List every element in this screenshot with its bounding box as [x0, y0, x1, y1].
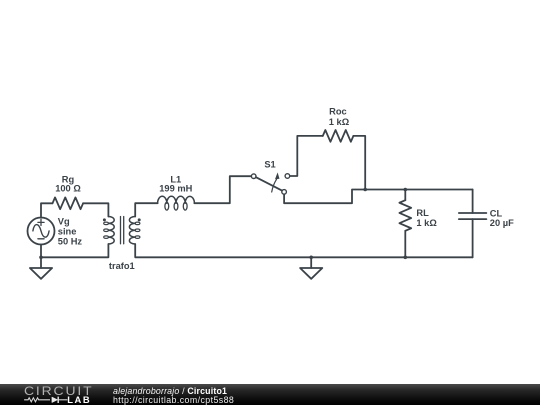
logo mark zigzag diode LAB: [0, 384, 110, 405]
svg-text:sine: sine: [58, 226, 77, 236]
label Vg sine 50 Hz: [58, 216, 83, 246]
wire secondary top to L1: [135, 203, 157, 216]
voltage source Vg: [28, 218, 55, 245]
wire primary bottom rail: [41, 244, 108, 257]
inductor L1: [158, 196, 195, 210]
svg-text:trafo1: trafo1: [109, 261, 135, 271]
label trafo1: [109, 261, 135, 271]
svg-text:Roc: Roc: [329, 107, 347, 117]
label RL 1 kOhm: [416, 208, 437, 228]
svg-text:S1: S1: [264, 160, 275, 170]
wire bottom rail secondary: [135, 244, 472, 257]
footer bar: [0, 384, 540, 405]
resistor Rg: [53, 197, 84, 209]
capacitor CL: [459, 190, 487, 258]
label Roc 1 kOhm: [329, 107, 350, 127]
logo CIRCUIT: [24, 384, 93, 398]
node junction middle ground: [309, 255, 313, 259]
wire Rg to transformer primary: [83, 203, 108, 216]
svg-text:1 kΩ: 1 kΩ: [329, 117, 350, 127]
node junction at Vg bottom: [39, 255, 43, 259]
transformer trafo1: [103, 217, 141, 245]
svg-text:100 Ω: 100 Ω: [55, 184, 81, 194]
label CL 20 uF: [490, 208, 514, 228]
svg-text:50 Hz: 50 Hz: [58, 236, 83, 246]
node junction RL bottom: [404, 255, 408, 259]
wire switch bottom throw to rail: [284, 190, 473, 204]
svg-text:CL: CL: [490, 208, 503, 218]
svg-text:1 kΩ: 1 kΩ: [416, 218, 437, 228]
svg-text:199 mH: 199 mH: [159, 184, 192, 194]
svg-text:RL: RL: [416, 208, 429, 218]
svg-text:LAB: LAB: [67, 394, 91, 405]
node junction Roc/rail: [363, 188, 367, 192]
wire Vg bottom: [40, 245, 42, 258]
label S1: [264, 160, 275, 170]
resistor RL: [399, 190, 411, 258]
ground middle: [300, 257, 322, 279]
node junction RL top: [404, 188, 408, 192]
resistor Roc: [323, 130, 354, 142]
switch S1: [251, 172, 289, 194]
ground left: [30, 257, 52, 279]
wire switch top throw to Roc: [290, 136, 323, 176]
label L1 199 mH: [159, 174, 192, 193]
wire Roc right down to node rail: [353, 136, 365, 190]
wire Vg top to Rg: [41, 203, 53, 217]
wire L1 to switch: [194, 176, 251, 203]
label Rg 100 Ohm: [55, 174, 81, 193]
svg-text:20 µF: 20 µF: [490, 218, 514, 228]
svg-text:Vg: Vg: [58, 216, 70, 226]
